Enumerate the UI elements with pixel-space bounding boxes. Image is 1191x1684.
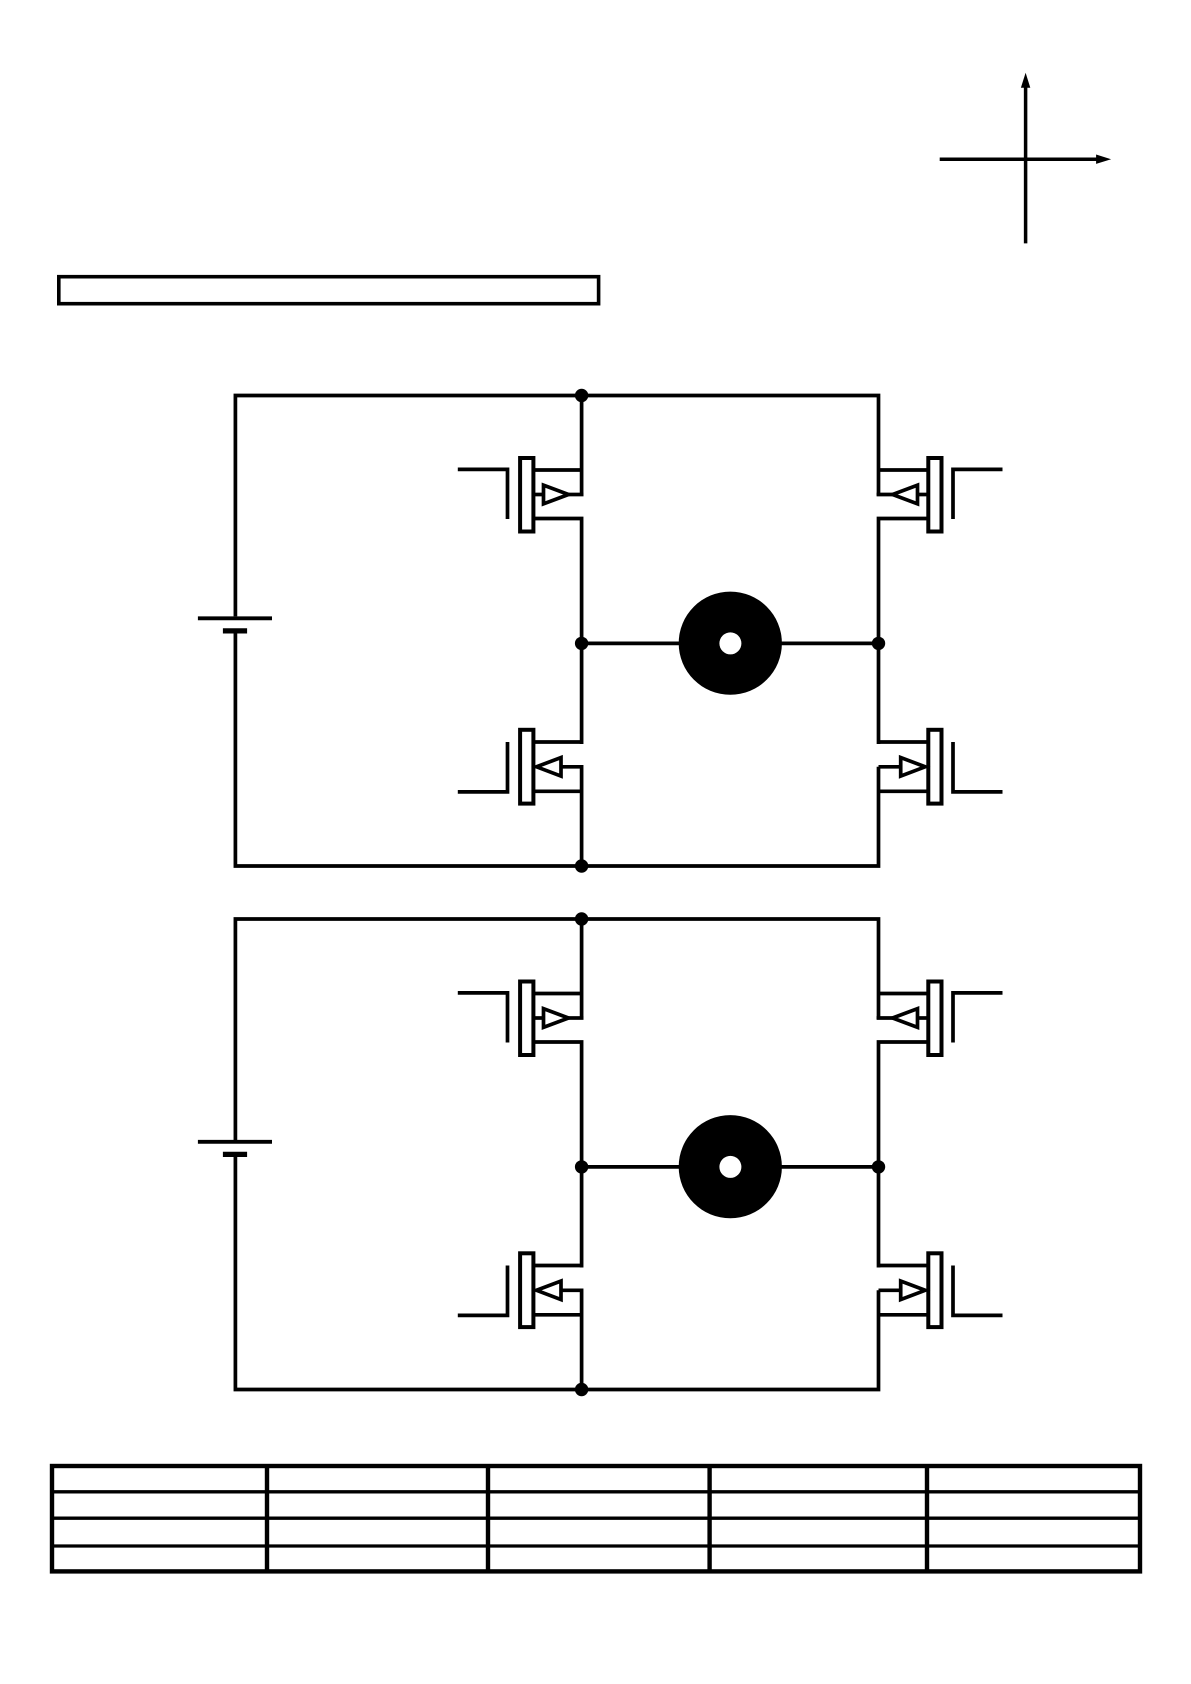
transistor Q6 (top-right MOSFET) <box>877 982 1003 1167</box>
table row line 2 <box>52 1517 1140 1520</box>
battery B1 negative plate (short) <box>223 628 247 633</box>
motor M1 lead wire (mid rail) <box>582 642 879 646</box>
node: bottom rail junction (circuit 1) <box>575 859 588 872</box>
motor M2 lead wire (mid rail) <box>582 1165 879 1169</box>
axis arrows (coordinate cross, top right) <box>940 73 1111 244</box>
transistor Q4 (bottom-right MOSFET) <box>879 643 1003 803</box>
horizontal axis arrow (right) <box>940 157 1098 161</box>
battery B2 positive plate (long) <box>198 1140 272 1144</box>
transistor Q5 (top-left MOSFET) <box>458 982 584 1167</box>
node: top rail junction (circuit 1) <box>575 389 588 402</box>
battery B2 negative plate (short) <box>223 1152 247 1157</box>
transistor Q3 (bottom-left MOSFET) <box>458 643 582 866</box>
node: mid-left junction (circuit 2) <box>575 1160 588 1173</box>
battery B1 positive plate (long) <box>198 616 272 620</box>
table row line 1 <box>52 1490 1140 1493</box>
title box (empty rectangle) <box>59 277 599 304</box>
motor M2 (DC motor, black disc) <box>679 1115 782 1218</box>
table column line 3 <box>707 1466 711 1571</box>
table row line 3 <box>52 1544 1140 1547</box>
table (5 columns x 4 rows, empty) <box>52 1466 1140 1571</box>
node: mid-right junction (circuit 1) <box>872 637 885 650</box>
table column line 4 <box>925 1466 929 1571</box>
table column line 2 <box>486 1466 490 1571</box>
wire: battery- to bottom rail and right branch lower segment (circuit 1) <box>235 631 878 866</box>
node: mid-left junction (circuit 1) <box>575 637 588 650</box>
wire: battery+ to top rail and right branch upper segment (circuit 2) <box>235 919 878 1140</box>
wire: battery+ to top rail and right branch upper segment (circuit 1) <box>235 396 878 617</box>
node: top rail junction (circuit 2) <box>575 912 588 925</box>
vertical axis arrow (up) <box>1024 85 1028 243</box>
transistor Q7 (bottom-left MOSFET) <box>458 1167 582 1390</box>
node: bottom rail junction (circuit 2) <box>575 1383 588 1396</box>
table column line 1 <box>265 1466 269 1571</box>
node: mid-right junction (circuit 2) <box>872 1160 885 1173</box>
transistor Q2 (top-right MOSFET) <box>877 458 1003 643</box>
transistor Q1 (top-left MOSFET) <box>458 458 584 643</box>
table outer border <box>52 1466 1140 1571</box>
wire: battery- to bottom rail and right branch lower segment (circuit 2) <box>235 1154 878 1389</box>
wire: left branch upper segment (drain side of Q5) <box>580 919 584 1019</box>
wire: left branch upper segment (drain side of Q1) <box>580 396 584 496</box>
transistor Q8 (bottom-right MOSFET) <box>879 1167 1003 1327</box>
motor M1 (DC motor, black disc) <box>679 592 782 695</box>
